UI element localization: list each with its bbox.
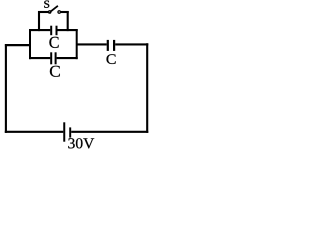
wire: switch right lead <box>61 11 69 13</box>
capacitor C2 right plate <box>55 52 57 64</box>
capacitor C2 left plate <box>50 52 52 64</box>
wire: right rail <box>146 43 148 133</box>
wire: right feeder from box to C3 <box>77 43 107 45</box>
switch S right terminal dot <box>58 11 61 14</box>
wire: left feeder from rail to box <box>5 44 30 46</box>
wire: box left edge <box>29 29 31 59</box>
label 30V battery value <box>68 138 94 148</box>
capacitor C1 right plate <box>56 26 58 36</box>
wire: from C3 to top-right corner <box>115 43 148 45</box>
wire: box bottom edge right segment <box>57 57 78 59</box>
wire: bottom right segment from battery <box>71 131 148 133</box>
label C3 <box>107 54 116 64</box>
label S <box>44 1 49 8</box>
wire: right vertical from switch to box top <box>67 11 69 31</box>
wire: bottom left segment to battery <box>5 131 64 133</box>
battery long plate <box>63 122 65 141</box>
wire: box top edge left segment <box>29 29 50 31</box>
wire: switch left lead <box>38 11 48 13</box>
label C2 <box>50 66 60 77</box>
capacitor C3 right plate <box>113 40 115 51</box>
switch S left terminal dot <box>48 10 52 14</box>
wire: box top edge right segment <box>57 29 77 31</box>
wire: left rail <box>5 44 7 133</box>
capacitor C3 left plate <box>107 40 109 51</box>
switch S lever arm <box>51 6 58 12</box>
wire: box right edge <box>76 29 78 59</box>
capacitor C1 left plate <box>50 26 52 36</box>
wire: left vertical from switch to box top <box>38 11 40 31</box>
label C1 <box>49 37 58 48</box>
battery short plate <box>69 127 71 137</box>
wire: box bottom edge left segment <box>29 57 50 59</box>
